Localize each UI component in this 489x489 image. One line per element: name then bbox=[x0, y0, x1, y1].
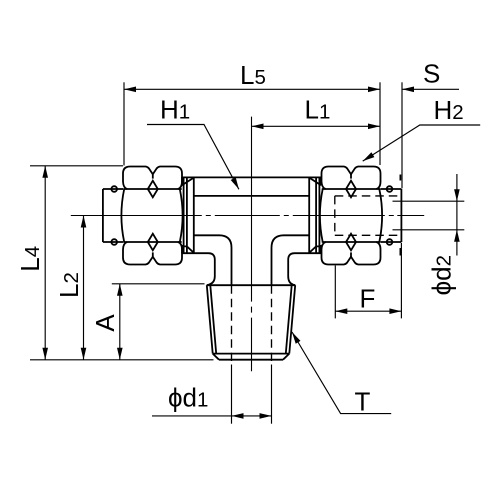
right collar bbox=[309, 177, 321, 253]
phi-d1 dimension line bbox=[152, 415, 272, 417]
right bracket lower ring bbox=[387, 239, 393, 245]
body bottom edge with neck fillets bbox=[182, 253, 321, 285]
L4 dimension line bbox=[44, 166, 46, 360]
right bracket edge dashes bbox=[399, 175, 401, 256]
right nut lower diamond bbox=[346, 234, 356, 251]
svg-text:S: S bbox=[423, 59, 440, 89]
svg-text:F: F bbox=[360, 283, 376, 313]
phi-d1 right arrow bbox=[260, 413, 272, 419]
S extension line left / nut edge bbox=[379, 82, 381, 165]
horizontal center line bbox=[71, 215, 424, 217]
left bracket lower ring bbox=[111, 239, 117, 245]
phi-d1 right extension line bbox=[271, 365, 273, 424]
male thread left flank bbox=[207, 285, 216, 353]
hidden tube end inside right nut bbox=[334, 196, 336, 235]
hidden tube upper line bbox=[335, 195, 399, 197]
bottom baseline extension bbox=[30, 359, 214, 361]
body bore lower line with branch passage fillets bbox=[194, 235, 309, 285]
L5 right arrow bbox=[368, 87, 380, 93]
right bracket upper ring bbox=[387, 186, 393, 192]
phi-d2 dimension line bbox=[456, 174, 458, 256]
right nut bottom notch tail bbox=[350, 252, 352, 256]
right nut bottom band bbox=[322, 242, 381, 265]
body top edge bbox=[182, 176, 321, 178]
svg-text:T: T bbox=[355, 387, 371, 417]
phi-d1 left arrow bbox=[232, 413, 244, 419]
F left extension line bbox=[334, 266, 336, 319]
A top extension line bbox=[112, 283, 205, 285]
male thread right flank bbox=[286, 285, 295, 353]
T leader bbox=[292, 332, 391, 414]
vertical center line bbox=[251, 117, 253, 372]
left nut lower diamond bbox=[148, 234, 158, 251]
L1 dimension line bbox=[252, 125, 381, 127]
left nut bottom notch tail bbox=[152, 252, 154, 256]
S dimension line bbox=[402, 88, 459, 90]
T arrowhead bbox=[292, 332, 301, 344]
thread root hidden line left bbox=[231, 285, 233, 361]
L1 left arrow bbox=[252, 124, 264, 130]
L4 bottom arrow bbox=[42, 348, 48, 360]
L4 top arrow bbox=[42, 166, 48, 178]
left nut upper facet line bbox=[123, 188, 181, 190]
A dimension line bbox=[119, 284, 121, 360]
H1 leader bbox=[147, 125, 239, 190]
L5 extension line left bbox=[123, 82, 125, 165]
L5 dimension line bbox=[124, 88, 380, 90]
S arrow bbox=[402, 87, 414, 93]
right nut top notch tail bbox=[350, 174, 352, 178]
L2 dimension line bbox=[83, 216, 85, 360]
H2 arrowhead bbox=[363, 152, 375, 161]
S extension line right bbox=[401, 82, 403, 188]
L2 bottom arrow bbox=[81, 348, 87, 360]
male thread top edge bbox=[207, 284, 295, 286]
left nut upper diamond bbox=[148, 181, 158, 198]
male thread bottom chamfer band bbox=[213, 354, 290, 360]
A top arrow bbox=[117, 284, 123, 296]
L2 top arrow bbox=[81, 216, 87, 228]
right nut upper diamond bbox=[346, 181, 356, 198]
left nut bottom band bbox=[123, 242, 182, 265]
phi-d2 upper arrow bbox=[454, 189, 460, 201]
body bore upper line bbox=[194, 195, 309, 197]
phi-d2 upper extension line bbox=[393, 200, 465, 202]
phi-d2 lower extension line bbox=[393, 229, 465, 231]
F right arrow bbox=[389, 308, 401, 314]
H2 leader bbox=[363, 125, 481, 161]
H1 arrowhead bbox=[231, 177, 239, 189]
L1 right arrow bbox=[368, 124, 380, 130]
left nut middle band bulges bbox=[121, 189, 182, 242]
L4 top extension line bbox=[30, 165, 123, 167]
L5 left arrow bbox=[124, 87, 136, 93]
left tube stub bracket bbox=[103, 189, 123, 242]
phi-d2 lower arrow bbox=[454, 230, 460, 242]
svg-text:A: A bbox=[90, 314, 120, 332]
left bracket upper ring bbox=[111, 186, 117, 192]
right nut upper facet line bbox=[322, 188, 380, 190]
right nut middle band bulges bbox=[320, 189, 382, 242]
right nut top band bbox=[322, 167, 381, 190]
A bottom arrow bbox=[117, 348, 123, 360]
phi-d1 left extension line bbox=[231, 365, 233, 424]
left nut top notch tail bbox=[152, 174, 154, 178]
left nut top band bbox=[123, 167, 182, 190]
F right extension line bbox=[400, 243, 402, 318]
F dimension line bbox=[335, 310, 401, 312]
hidden tube lower line bbox=[335, 234, 399, 236]
left collar bbox=[182, 177, 194, 253]
left nut lower facet line bbox=[123, 241, 181, 243]
right nut lower facet line bbox=[322, 241, 380, 243]
right tube stub bracket bbox=[381, 189, 402, 242]
F left arrow bbox=[335, 308, 347, 314]
thread root hidden line right bbox=[271, 285, 273, 361]
